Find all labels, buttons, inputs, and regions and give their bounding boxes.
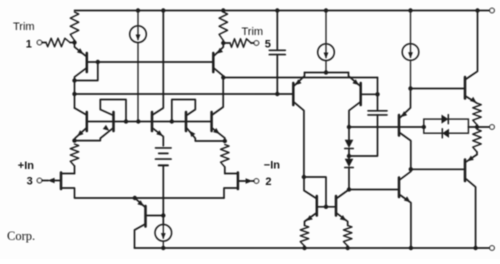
svg-text:Trim: Trim — [13, 21, 35, 33]
transistor Q17 emitter arrow — [470, 97, 477, 103]
wire hat Q6 collector tie — [172, 100, 196, 122]
transistor Q15 emitter arrow — [401, 111, 408, 117]
node input+ junction — [72, 138, 76, 142]
node quad base j3 — [170, 119, 174, 123]
capacitor C1 — [269, 50, 285, 54]
resistor R9 output upper — [473, 103, 481, 125]
transistor Q3 collector — [75, 108, 86, 115]
transistor Q11 emitter — [294, 73, 304, 86]
current source I3 — [402, 12, 419, 89]
label +In — [18, 160, 34, 172]
transistor Q2 bar — [212, 53, 215, 72]
terminal V+ — [490, 8, 495, 13]
capacitor C3 — [368, 111, 387, 115]
wire top V+ rail — [75, 10, 490, 12]
node Q15 emitter junction — [408, 86, 412, 90]
transistor Q16 emitter arrow — [404, 196, 411, 202]
capacitor C3 wire bottom — [349, 115, 378, 156]
transistor Q8in base arrow — [48, 178, 55, 184]
wire D1-D2 — [348, 149, 350, 159]
transistor Q3 emitter — [75, 129, 86, 141]
transistor Q12 bar — [359, 83, 362, 105]
wire R5 to Q8in — [74, 166, 76, 174]
transistor Q18 emitter — [466, 155, 477, 162]
svg-text:−In: −In — [264, 160, 280, 172]
node top rail junction x163 — [161, 8, 165, 12]
node output junction — [475, 125, 479, 129]
current source I2 — [318, 12, 335, 73]
transistor Q12 emitter arrow — [353, 79, 360, 85]
transistor Q9in base wire — [239, 180, 254, 182]
transistor Q12 collector — [349, 103, 360, 128]
node rail j475 — [473, 246, 477, 250]
transistor Q5 emitter arrow — [156, 130, 163, 136]
transistor Q17 bar — [464, 77, 467, 99]
svg-text:+In: +In — [18, 160, 34, 172]
wire R3 to node — [222, 41, 224, 44]
transistor Q12 emitter — [349, 73, 360, 86]
transistor Q16 bar — [398, 178, 401, 198]
wire hat Q4 collector tie — [100, 100, 126, 122]
wire R7 to rail — [304, 246, 306, 248]
transistor Q1 base wire — [88, 61, 98, 63]
transistor Q9in bar — [237, 173, 240, 190]
transistor Q7 bar — [210, 112, 213, 131]
wire bus to Q3 collector — [74, 94, 76, 108]
diode D2 — [345, 159, 354, 168]
transistor Q8in emitter lead — [62, 188, 135, 198]
label pin 2 — [265, 176, 271, 188]
node Q2 collector junction — [221, 75, 225, 79]
wire R8 to rail — [347, 246, 349, 248]
transistor Q18 collector — [466, 179, 476, 248]
transistor Q8in collector lead — [62, 173, 74, 175]
transistor Q3 bar — [86, 112, 89, 131]
transistor Q11 collector — [294, 103, 304, 178]
current source I4 — [155, 225, 172, 249]
terminal pin 2 — [254, 179, 259, 184]
transistor Q7 emitter — [213, 129, 225, 142]
node top rail junction x138 — [136, 8, 140, 12]
wire base bus long — [75, 93, 293, 95]
transistor Q1 emitter arrow — [77, 48, 84, 54]
label Trim right — [242, 26, 264, 38]
svg-text:5: 5 — [265, 39, 271, 51]
node mirror base junction — [324, 205, 328, 209]
transistor Q2 emitter arrow — [217, 48, 224, 54]
wire R1 to node — [74, 41, 76, 43]
wire x163 rail to Q5 — [162, 12, 164, 108]
node bias emitter junction — [133, 196, 137, 200]
diode clamp box — [424, 119, 469, 133]
svg-text:1: 1 — [26, 38, 32, 50]
node rail j347 — [346, 246, 350, 250]
transistor Q14 emitter arrow — [340, 215, 347, 221]
wire down x377 to bus — [377, 78, 379, 95]
transistor Q14 bar — [335, 196, 338, 216]
transistor Q10 bar — [144, 206, 147, 227]
node Trim5 junction — [221, 41, 225, 45]
transistor Q17 collector — [466, 12, 477, 79]
wire hat mirror bases — [304, 177, 326, 207]
transistor Q13 bar — [316, 196, 319, 216]
transistor Q13 collector — [304, 177, 316, 198]
capacitor C2 stem — [162, 165, 164, 225]
label Trim left — [13, 21, 35, 33]
resistor R2 trim1 horizontal — [42, 38, 75, 46]
svg-text:Corp.: Corp. — [7, 229, 35, 243]
node Q1 collector junction — [72, 78, 76, 82]
transistor Q8in bar — [60, 173, 63, 190]
svg-text:3: 3 — [27, 175, 33, 187]
transistor Q1 collector — [75, 69, 86, 81]
terminal Trim pin 5 — [254, 41, 259, 46]
transistor Q10 emitter arrow — [137, 200, 144, 206]
node Q16 collector junction — [409, 167, 413, 171]
transistor Q10 emitter — [135, 198, 145, 207]
resistor R4 trim5 horizontal — [223, 39, 254, 47]
wire bottom V- rail — [135, 247, 490, 249]
node diode mid junction — [347, 154, 351, 158]
transistor Q9in base arrow — [246, 178, 253, 184]
wire base bus Q1-Q2 — [98, 61, 212, 63]
resistor R1 left trim load — [70, 12, 78, 41]
wire R9 to out node — [476, 125, 478, 127]
resistor R3 right trim load — [219, 12, 227, 41]
resistor R7 mirror left — [300, 226, 308, 247]
transistor Q15 collector — [400, 133, 411, 169]
wire to D1 — [348, 127, 350, 140]
transistor Q16 emitter — [400, 195, 411, 248]
node quad base j1 — [124, 119, 128, 123]
transistor Q3 emitter arrow — [77, 130, 83, 136]
diode D1 — [345, 140, 354, 149]
transistor Q5 bar — [151, 112, 154, 131]
node top rail junction x326 — [324, 8, 328, 12]
wire Q15em to Q17 base — [411, 88, 464, 90]
node rail j304 — [302, 246, 306, 250]
diode D3 — [442, 115, 449, 124]
node Q13 hat junction — [302, 175, 306, 179]
transistor Q5 emitter — [153, 129, 163, 146]
node C1 bus junction — [275, 92, 279, 96]
node input- junction — [223, 139, 227, 143]
label -In — [264, 160, 280, 172]
node top rail junction x277 — [275, 8, 279, 12]
transistor Q6 emitter — [187, 129, 225, 142]
wire Q1 collector down — [74, 81, 76, 95]
transistor Q11 bar — [292, 83, 295, 105]
resistor R6 -In — [221, 145, 229, 168]
node Q10 base junction — [161, 213, 165, 217]
transistor Q6 emitter arrow — [189, 131, 195, 137]
transistor Q4 bar — [112, 112, 115, 131]
diode D4 — [442, 129, 449, 138]
transistor Q2 collector — [214, 69, 223, 78]
wire Q1 base-collector tie — [75, 62, 98, 81]
transistor Q15 bar — [398, 115, 401, 136]
node mirror junction — [347, 187, 351, 191]
transistor Q13 emitter arrow — [306, 215, 313, 221]
transistor Q7 emitter arrow — [213, 128, 220, 134]
node rail j163 — [161, 246, 165, 250]
transistor Q11 emitter arrow — [295, 79, 302, 85]
transistor Q16 base wire — [349, 189, 398, 191]
node pair emitter junction — [324, 70, 328, 74]
capacitor C2 plates — [156, 148, 172, 166]
transistor Q12 base wire — [362, 93, 378, 95]
terminal pin 3 — [37, 178, 42, 183]
transistor Q8in base wire — [42, 180, 60, 182]
transistor Q13 emitter — [305, 214, 316, 226]
node top rail junction x223 — [221, 8, 225, 12]
svg-text:Trim: Trim — [242, 26, 264, 38]
terminal Trim pin 1 — [37, 40, 42, 45]
svg-text:2: 2 — [265, 176, 271, 188]
transistor Q7 collector — [213, 78, 224, 115]
wire Q12col to box — [349, 126, 424, 128]
transistor Q14 collector — [337, 190, 349, 199]
node Trim1 junction — [72, 40, 76, 44]
wire R6 to Q9in — [224, 167, 226, 174]
label pin 3 — [27, 175, 33, 187]
transistor Q9in collector lead — [225, 173, 237, 175]
wire emitter rail pair — [305, 72, 349, 74]
node bus left junction — [72, 92, 76, 96]
node diode top junction — [347, 125, 351, 129]
wire quad base line — [88, 121, 212, 123]
current source I1 — [130, 12, 147, 120]
node Q1 base junction — [96, 60, 100, 64]
label Corp — [7, 229, 35, 243]
transistor Q18 bar — [464, 160, 467, 182]
resistor R8 mirror right — [344, 226, 352, 247]
transistor Q17 emitter — [466, 97, 477, 104]
transistor Q10 base wire — [147, 215, 164, 217]
node quad base j2 — [136, 119, 140, 123]
capacitor C3 wire top — [377, 94, 379, 110]
node top rail junction x410 — [408, 8, 412, 12]
wire R10 to Q18 — [476, 152, 478, 155]
node rail j411 — [409, 246, 413, 250]
capacitor C1 wire from rail — [276, 12, 278, 50]
resistor R10 output lower — [473, 129, 481, 152]
wire out terminal — [477, 126, 490, 128]
capacitor C1 wire to bus — [276, 55, 278, 94]
terminal V- — [490, 246, 495, 251]
terminal OUT — [490, 125, 495, 130]
transistor Q5 collector — [153, 108, 163, 115]
transistor Q4 emitter — [75, 129, 113, 141]
wire Q2col to 2nd stage — [223, 77, 377, 79]
transistor Q15 emitter — [400, 89, 410, 118]
transistor Q14 emitter — [337, 214, 348, 226]
label pin 5 — [265, 39, 271, 51]
resistor R5 +In — [70, 144, 78, 166]
wire box to out — [468, 126, 477, 128]
transistor Q6 bar — [185, 112, 188, 131]
wire input bottom line — [135, 197, 224, 199]
transistor Q9in emitter lead — [224, 188, 237, 198]
label pin 1 — [26, 38, 32, 50]
wire mirror base line — [318, 206, 335, 208]
transistor Q1 emitter — [75, 43, 86, 57]
transistor Q4 emitter arrow — [103, 125, 110, 131]
transistor Q16 collector — [400, 172, 411, 180]
node clamp left junction — [422, 125, 426, 129]
transistor Q2 emitter — [214, 43, 223, 56]
transistor Q18 emitter arrow — [467, 156, 474, 162]
transistor Q18 base wire — [411, 168, 464, 170]
transistor Q1 bar — [86, 53, 89, 72]
wire D2 down — [348, 168, 350, 190]
node comp junction — [375, 92, 379, 96]
node top rail junction x477 — [475, 8, 479, 12]
transistor Q10 collector — [135, 225, 145, 249]
